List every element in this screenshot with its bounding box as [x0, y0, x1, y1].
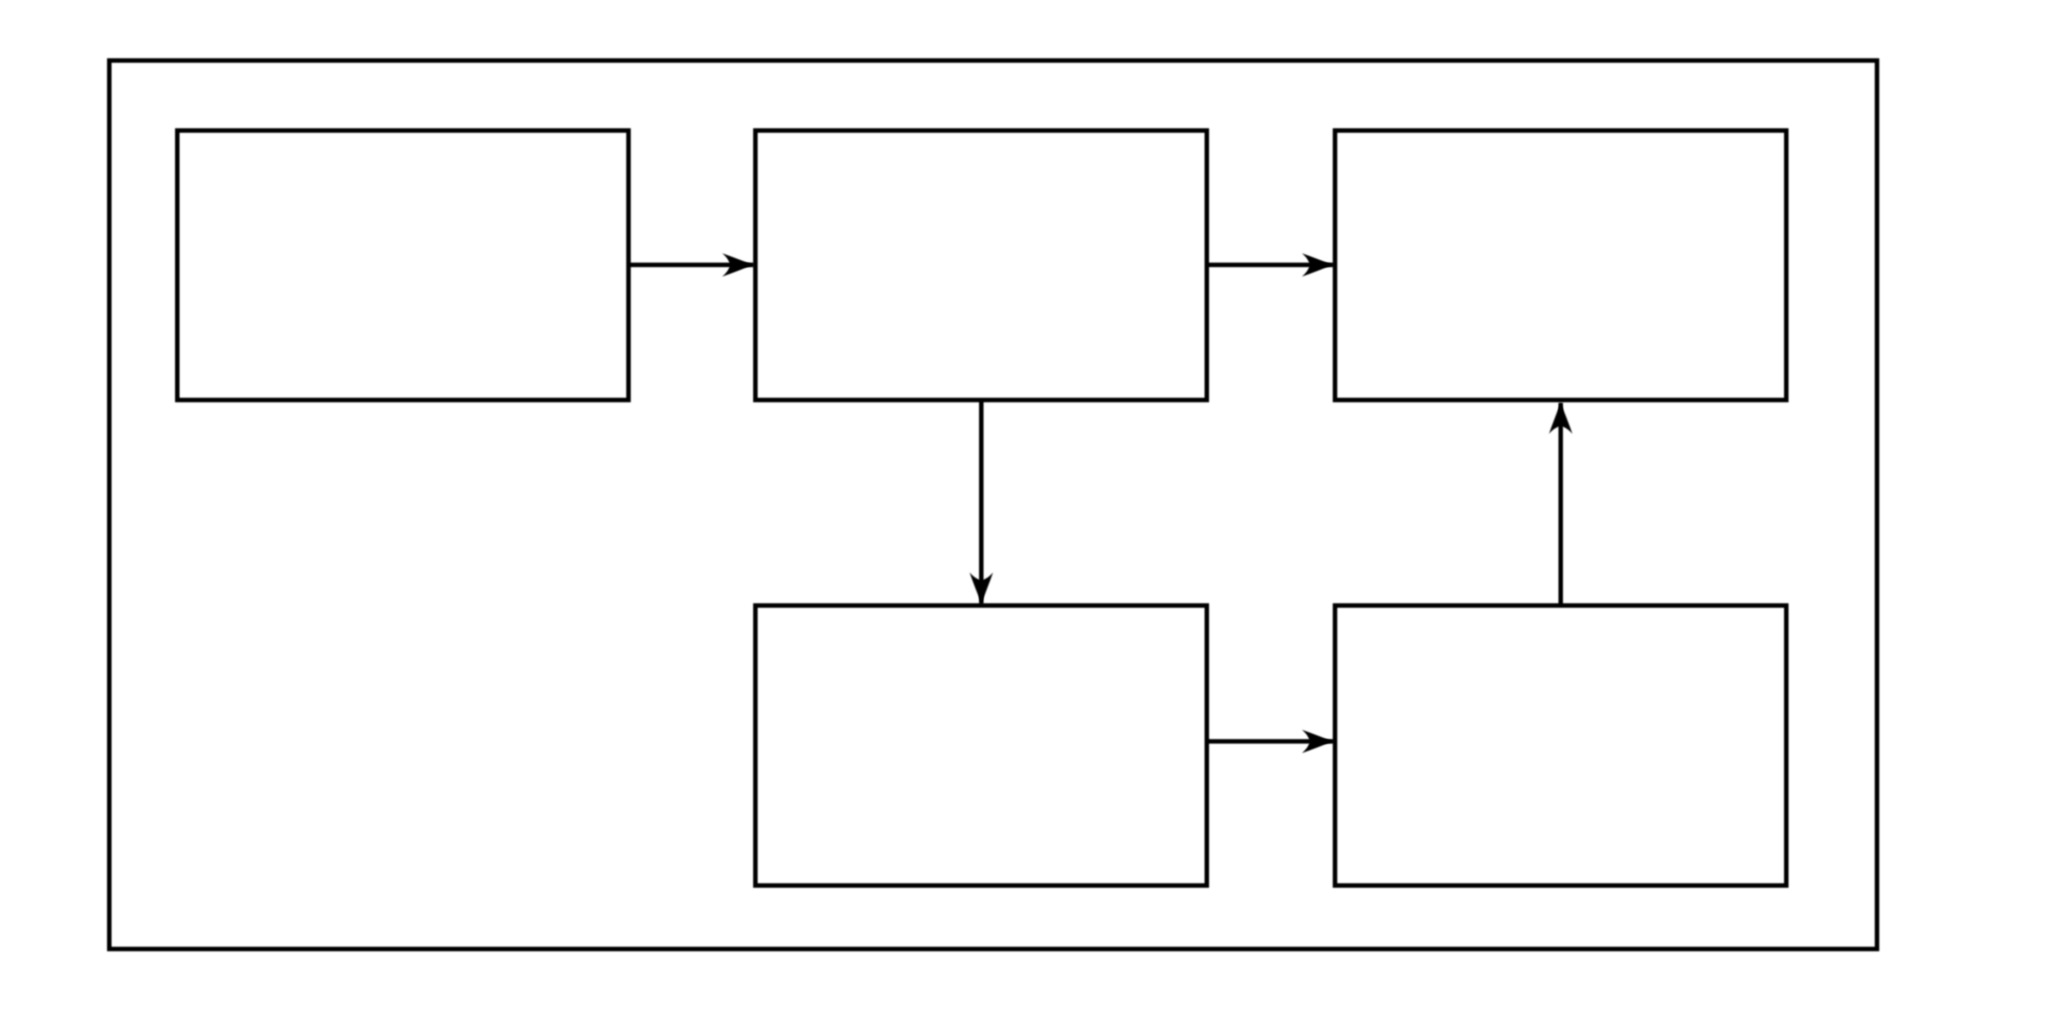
arrowhead A2 [1302, 253, 1333, 276]
box 2 (top-middle) [755, 131, 1206, 401]
arrowhead A1 [722, 253, 753, 276]
box 1 (top-left) [177, 131, 628, 401]
outer border frame [109, 61, 1877, 950]
box 5 (bottom-right) [1335, 606, 1786, 886]
wire arrow A4: box4 -> box5 [1207, 739, 1333, 744]
box 4 (bottom-middle) [755, 606, 1206, 886]
box 3 (top-right) [1335, 131, 1786, 401]
arrowhead A3 [970, 572, 993, 603]
wire arrow A5: box5 -> box3 [1558, 403, 1563, 606]
wire arrow A3: box2 -> box4 [979, 400, 984, 603]
arrowhead A4 [1302, 730, 1333, 753]
arrowhead A5 [1549, 403, 1572, 434]
wire arrow A2: box2 -> box3 [1207, 263, 1333, 268]
wire arrow A1: box1 -> box2 [629, 263, 754, 268]
